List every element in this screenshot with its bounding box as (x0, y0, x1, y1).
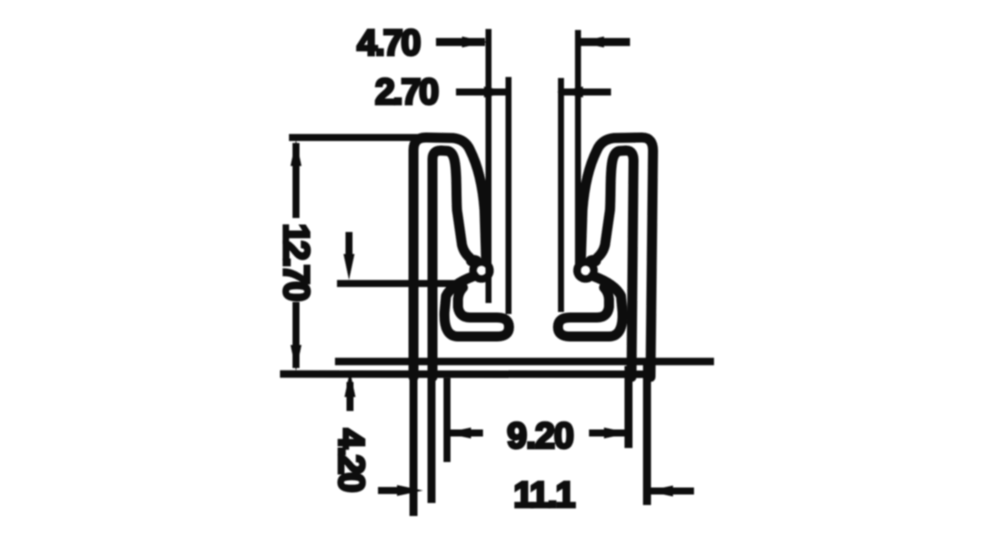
left wall outer line below base (11.1 left extension) (410, 366, 418, 516)
4.70 dimension line right with arrow (580, 38, 630, 46)
left clip inner contour line (wall inner, top inner, arm inner) (433, 151, 471, 378)
left clip arm elbow blob (466, 255, 482, 267)
svg-text:9.20: 9.20 (507, 415, 573, 456)
arm tip level extension line (337, 280, 463, 287)
4.70 left extension line (486, 29, 492, 303)
small down arrow at arm tip level (346, 232, 353, 262)
svg-text:12.70: 12.70 (276, 223, 317, 300)
4.70 right extension line (575, 30, 581, 276)
right clip outer contour line (wall outer, top, arm outer, tip curl) (558, 138, 653, 378)
right clip inner contour line (wall inner, top inner, arm inner) (597, 151, 634, 378)
2.70 dimension line right with arrow (559, 89, 611, 96)
9.20 dimension line left with arrow (450, 430, 483, 437)
9.20 right extension line (625, 366, 633, 448)
2.70 left extension line (506, 77, 512, 314)
svg-text:4.20: 4.20 (331, 428, 372, 491)
svg-text:11.1: 11.1 (513, 474, 575, 515)
11.1 dimension line left with arrow (378, 487, 405, 494)
right clip arm elbow blob (585, 255, 601, 267)
12.70 dimension line lower segment with down arrow (293, 302, 300, 368)
4.20 up arrow (347, 382, 354, 411)
left clip outer contour line (wall outer, top, arm outer, tip curl) (414, 138, 510, 378)
11.1 right extension line (643, 360, 651, 505)
svg-text:2.70: 2.70 (375, 71, 438, 112)
base bar bottom edge with rounded right end (280, 362, 650, 374)
base bar top edge (335, 358, 714, 366)
right clip arm tip curl (577, 262, 594, 279)
left clip foot (riser and pad, open upper end) (444, 276, 509, 337)
left wall inner line below base (428, 366, 436, 503)
2.70 dimension line left with arrow (456, 89, 507, 96)
svg-text:4.70: 4.70 (357, 22, 420, 63)
9.20 dimension line right with arrow (589, 430, 626, 437)
4.70 dimension line left with arrow (436, 38, 485, 46)
2.70 right extension line (558, 78, 564, 312)
11.1 dimension line right with arrow (650, 488, 694, 495)
right clip foot (riser and pad, open upper end) (558, 276, 623, 337)
12.70 top extension line (289, 134, 421, 141)
12.70 dimension line upper segment with up arrow (293, 143, 300, 218)
9.20 left extension line (444, 378, 451, 462)
left clip arm tip curl (473, 262, 490, 279)
